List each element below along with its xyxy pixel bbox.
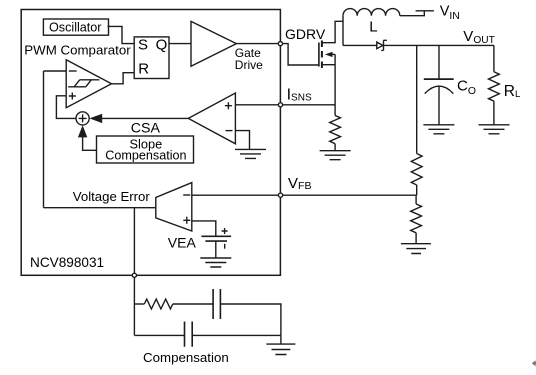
op-amp CSA triangle: [188, 93, 235, 144]
oscillator block: [43, 19, 108, 35]
wire RL tap: [493, 45, 495, 71]
diode D1 Schottky anode triangle: [377, 42, 383, 49]
resistor compensation: [144, 299, 173, 309]
svg-text:VEA: VEA: [168, 234, 197, 250]
wire sense resistor to ground: [334, 144, 336, 151]
wire Co to ground: [438, 86, 440, 125]
ground CSA: [235, 149, 266, 158]
wire COMP pin down to compensation: [133, 208, 135, 336]
wire to PWM minus input: [44, 70, 67, 72]
svg-text:GDRV: GDRV: [285, 26, 326, 42]
wire series capacitor to ground leg: [220, 304, 281, 335]
svg-text:CO: CO: [457, 77, 476, 96]
wire VEA plus to reference: [192, 221, 216, 236]
wire VEA output: [44, 207, 156, 209]
node VFB pin: [278, 193, 282, 197]
slope compensation block: [97, 136, 194, 163]
svg-text:Voltage Error: Voltage Error: [73, 189, 151, 204]
IC block NCV898031 outline: [21, 10, 280, 276]
VEA minus input marker: [183, 194, 190, 196]
wire CSA output to summer: [102, 117, 188, 119]
summing junction plus: [79, 114, 87, 122]
wire oscillator to S input: [108, 26, 135, 43]
hysteresis symbol: [68, 80, 99, 87]
wire VFB to lower divider resistor: [415, 195, 417, 204]
PWM minus input marker: [69, 70, 77, 72]
wire feedback divider tap: [416, 45, 418, 153]
wire comp upper branch: [134, 303, 144, 305]
wire switch node to diode: [343, 44, 377, 46]
inductor L: [343, 9, 400, 16]
ground Co: [423, 125, 454, 134]
svg-text:Compensation: Compensation: [105, 149, 186, 163]
SR latch U1: [134, 37, 169, 79]
svg-text:VOUT: VOUT: [463, 28, 495, 46]
CSA plus input marker: [225, 102, 232, 109]
svg-text:VIN: VIN: [440, 4, 460, 22]
wire Co tap: [438, 45, 440, 79]
wire inductor to VIN terminal: [400, 11, 425, 16]
node ISNS pin: [278, 103, 282, 107]
feedback wire VEA output to PWM minus: [43, 71, 45, 208]
capacitor Co top plate: [424, 78, 454, 80]
summing junction circle: [76, 112, 89, 125]
wire comp lower branch: [134, 334, 184, 336]
comparator PWM triangle: [66, 60, 111, 108]
reference battery minus tick: [224, 244, 226, 249]
svg-text:CSA: CSA: [131, 120, 161, 136]
reference battery plus marker: [222, 228, 228, 234]
wire PWM output to R input: [112, 73, 135, 84]
wire upper resistor to VFB line: [416, 185, 418, 195]
transistor Q1 drain wire to inductor: [322, 21, 343, 42]
wire ISNS from CSA plus to sense resistor: [235, 104, 335, 106]
arrowhead slope comp into summer: [78, 125, 87, 137]
svg-text:NCV898031: NCV898031: [30, 255, 104, 270]
buffer gate drive triangle: [191, 21, 236, 66]
ground reference: [200, 258, 231, 267]
svg-text:VFB: VFB: [288, 175, 312, 192]
svg-text:Compensation: Compensation: [143, 350, 229, 365]
stray mark bottom right: [532, 360, 536, 366]
arrowhead CSA into summer: [89, 114, 102, 123]
wire output rail to VOUT: [384, 44, 494, 46]
svg-text:S: S: [138, 37, 148, 54]
PWM plus input marker: [69, 93, 76, 100]
wire MOSFET source down to sense resistor: [334, 54, 336, 115]
resistor sense: [330, 116, 341, 144]
wire summer to PWM plus input: [56, 96, 76, 119]
CSA minus input marker: [226, 130, 233, 132]
wire Q output to gate drive: [169, 43, 191, 45]
ground RL: [479, 125, 510, 134]
wire VFB line: [192, 194, 417, 196]
wire reference to ground: [215, 241, 217, 258]
ground sense: [320, 151, 351, 160]
VEA plus input marker: [183, 217, 190, 224]
transistor Q1 body arrow: [325, 52, 333, 57]
resistor divider lower: [411, 204, 422, 233]
ground compensation: [266, 344, 295, 354]
transistor Q1 MOSFET gate bar: [318, 43, 320, 67]
capacitor comp parallel: [185, 322, 193, 347]
wire lower resistor to ground: [415, 233, 417, 244]
node GDRV pin: [278, 42, 282, 46]
wire CSA minus to ground: [235, 131, 249, 150]
terminal VIN bar: [416, 10, 434, 12]
node COMP pin: [132, 273, 136, 277]
svg-text:Q: Q: [156, 37, 168, 54]
svg-text:Drive: Drive: [235, 58, 263, 72]
transistor Q1 channel segments: [321, 41, 323, 69]
svg-text:L: L: [369, 18, 377, 35]
svg-text:PWM Comparator: PWM Comparator: [24, 42, 131, 57]
resistor divider upper: [411, 154, 422, 186]
wire lower capacitor to ground leg: [192, 334, 281, 336]
op-amp VEA trapezoid: [156, 183, 192, 231]
transistor Q1 source wire: [322, 64, 335, 66]
ground divider: [401, 244, 431, 254]
svg-text:RL: RL: [504, 83, 521, 100]
capacitor Co curved plate: [425, 86, 454, 94]
diode D1 Schottky cathode bar: [381, 40, 387, 50]
svg-text:Oscillator: Oscillator: [49, 21, 101, 35]
svg-text:ISNS: ISNS: [287, 87, 312, 104]
wire comp to ground: [280, 335, 282, 344]
reference battery plates: [201, 236, 231, 241]
transistor Q1 body wire: [332, 53, 335, 55]
wire gate drive to GDRV pin and MOSFET gate: [236, 44, 319, 65]
capacitor comp series: [213, 289, 220, 319]
wire RL to ground: [493, 101, 495, 125]
resistor RL: [489, 72, 500, 101]
wire inductor to switch node: [342, 16, 344, 46]
wire resistor to series capacitor: [173, 303, 213, 305]
wire slope comp to summer: [83, 137, 97, 150]
svg-text:R: R: [138, 61, 149, 78]
